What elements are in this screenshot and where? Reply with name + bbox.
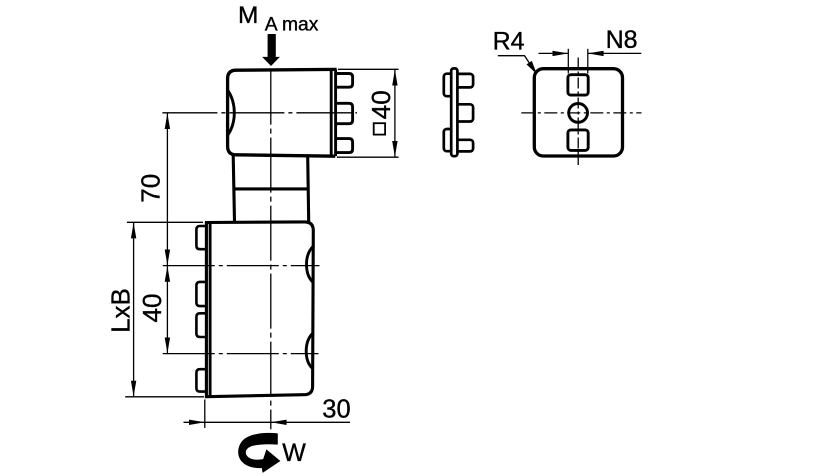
- dim 30 extension line left: [204, 400, 206, 428]
- dim 30 arrow left-pointing: [271, 420, 287, 425]
- lower block centerline 1: [163, 265, 320, 267]
- dim 30 dimension line: [184, 421, 351, 423]
- dim square40 arrow up: [392, 70, 397, 86]
- dim 40 arrow down: [165, 338, 170, 354]
- front view horizontal centerline: [521, 112, 641, 114]
- dim 70 dimension line: [166, 113, 168, 266]
- svg-text:LxB: LxB: [105, 288, 135, 333]
- top block right outer edge: [334, 69, 337, 156]
- vertical centerline: [270, 70, 272, 430]
- top block left bulge arc: [228, 91, 234, 136]
- top block flange inner line: [330, 70, 333, 156]
- lower block tab 4: [196, 369, 206, 391]
- dim square40 dimension line: [394, 69, 396, 157]
- svg-text:70: 70: [136, 174, 166, 203]
- dim square40 extension line bottom: [337, 156, 399, 158]
- N8 dimension line left part: [539, 52, 569, 54]
- neck left edge: [233, 155, 234, 222]
- rotation arrow W: [238, 433, 280, 473]
- top block tab 3: [336, 139, 353, 153]
- dim 40 arrow up: [165, 266, 170, 282]
- lower block tab 3: [196, 313, 206, 337]
- dim 70 arrow down: [165, 250, 170, 266]
- lower block tab 2: [196, 282, 206, 306]
- top block tab 2: [336, 103, 353, 123]
- dim LxB dimension line: [133, 222, 135, 396]
- svg-text:M: M: [238, 2, 258, 29]
- svg-text:40: 40: [366, 90, 396, 119]
- svg-text:40: 40: [137, 294, 167, 323]
- side view left tab 1: [444, 74, 453, 97]
- neck divider line: [234, 187, 309, 190]
- dim square40 arrow down: [392, 141, 397, 157]
- lower block centerline 2: [163, 353, 319, 355]
- N8 extension line left: [567, 49, 569, 74]
- N8 extension line right: [587, 49, 589, 74]
- N8 arrow left-pointing: [588, 51, 604, 56]
- top block tab 1: [336, 74, 353, 88]
- front view square body: [534, 69, 622, 156]
- dim LxB arrow up: [131, 223, 136, 239]
- front view bottom slot: [568, 130, 588, 151]
- dim LxB extension line bottom: [125, 396, 204, 398]
- svg-text:W: W: [282, 439, 306, 467]
- svg-text:R4: R4: [493, 27, 525, 55]
- front view vertical centerline: [577, 58, 579, 166]
- lower block flange inner line: [209, 222, 212, 396]
- lower block bore arc 2: [306, 333, 313, 368]
- torque arrow: [262, 34, 280, 66]
- svg-text:A max: A max: [265, 15, 319, 36]
- side view right tab 2: [455, 104, 473, 121]
- lower block bore arc 1: [307, 247, 314, 283]
- svg-text:30: 30: [322, 395, 350, 423]
- side view left tab 2: [444, 129, 453, 151]
- dim 30 arrow right-pointing: [189, 420, 205, 425]
- R4 leader line: [498, 56, 533, 69]
- dim square40 extension line top: [338, 68, 399, 70]
- top block body: [228, 69, 337, 156]
- dim 70 arrow up: [165, 113, 170, 129]
- neck right edge: [308, 156, 309, 222]
- svg-text:N8: N8: [606, 26, 638, 54]
- R4 leader arrowhead: [527, 61, 537, 74]
- N8 dimension line right part: [588, 52, 642, 54]
- lower block tab 1: [196, 226, 206, 249]
- dim LxB arrow down: [131, 381, 136, 397]
- top block centerline: [162, 112, 357, 114]
- dim 40 dimension line: [166, 266, 168, 354]
- side view right tab 1: [455, 74, 473, 88]
- N8 arrow right-pointing: [553, 51, 569, 56]
- dim LxB extension line top: [127, 221, 203, 223]
- front view top slot: [568, 75, 588, 95]
- lower block body: [206, 222, 313, 397]
- front view center bore circle: [569, 104, 588, 123]
- side view strip: [451, 68, 457, 156]
- side view right tab 3: [455, 140, 473, 152]
